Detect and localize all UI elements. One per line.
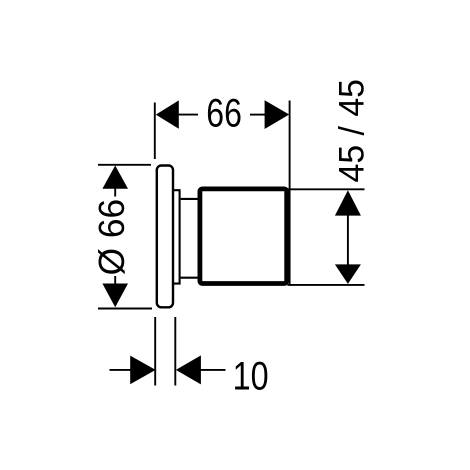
escutcheon plate (side view) bbox=[157, 166, 173, 308]
dim 45/45 vertical line bbox=[347, 213, 349, 266]
collar ring 1 bbox=[174, 190, 180, 283]
dim 10 left extension line bbox=[154, 317, 156, 386]
dim 45/45 up arrowhead bbox=[335, 190, 361, 215]
svg-text:10: 10 bbox=[233, 355, 269, 399]
dim 10 left-pointing arrowhead bbox=[176, 355, 201, 384]
dia 66 bottom extension line bbox=[98, 308, 152, 310]
dim 66 right arrowhead bbox=[265, 100, 290, 129]
dim 10 right-pointing arrowhead bbox=[130, 356, 155, 385]
dim 66 left extension line bbox=[154, 103, 156, 160]
dim 66 right extension line bbox=[289, 101, 291, 286]
dim 45/45 down arrowhead bbox=[335, 264, 361, 284]
dim 10 right extension line bbox=[174, 317, 176, 386]
dia 66 up arrowhead bbox=[102, 166, 128, 189]
dia 66 down arrowhead bbox=[102, 284, 128, 308]
dia 66 upper connector bbox=[114, 189, 116, 197]
svg-text:45 / 45: 45 / 45 bbox=[332, 79, 371, 183]
dia 66 top extension line bbox=[98, 164, 151, 166]
handle (thick outline) bbox=[200, 189, 287, 284]
svg-text:Ø 66: Ø 66 bbox=[91, 199, 132, 276]
dim 66 left arrowhead bbox=[156, 100, 179, 128]
collar ring 2 top line bbox=[181, 198, 198, 200]
dim 10 right tail bbox=[200, 369, 226, 371]
dim 45/45 top extension line bbox=[288, 188, 365, 190]
svg-text:66: 66 bbox=[206, 91, 242, 135]
dim 10 left tail bbox=[110, 369, 132, 371]
dim 66 left leader bbox=[178, 114, 198, 116]
dim 66 right leader bbox=[250, 114, 266, 116]
collar ring 2 bottom line bbox=[181, 277, 198, 279]
dim 45/45 bottom extension line bbox=[288, 284, 365, 286]
dia 66 lower connector bbox=[114, 276, 116, 284]
